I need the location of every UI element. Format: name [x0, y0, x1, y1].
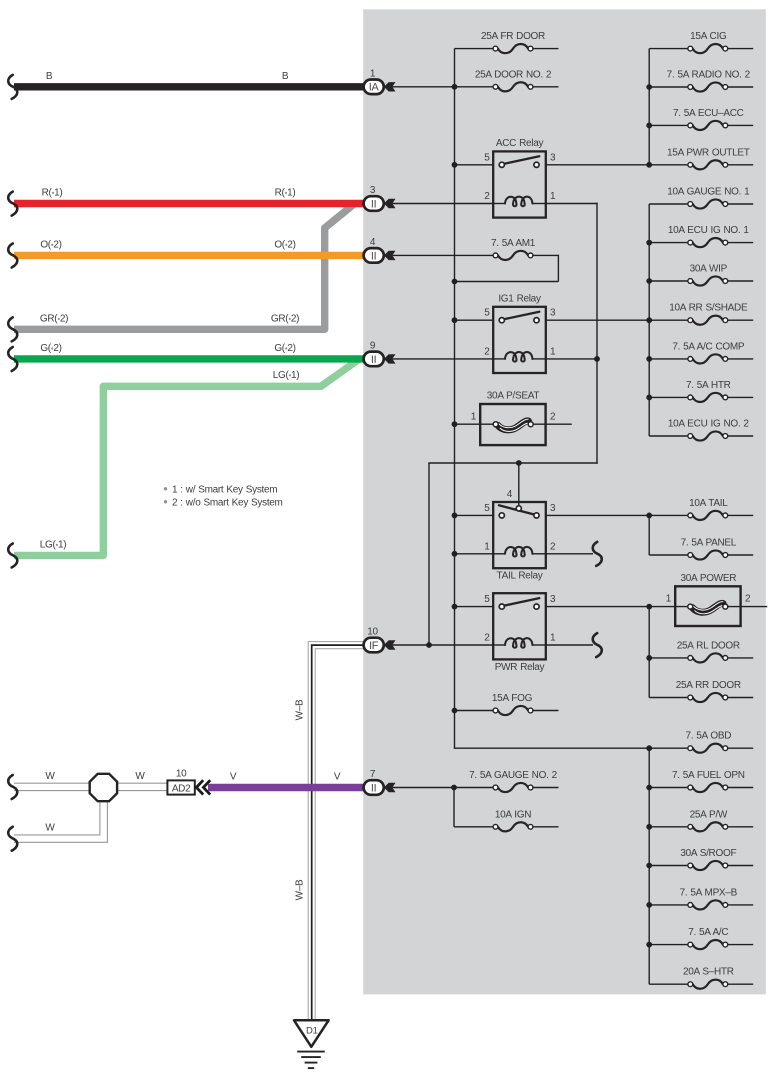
- ACC contact pin5: [499, 162, 504, 167]
- svg-text:10A RR S/SHADE: 10A RR S/SHADE: [669, 303, 748, 314]
- break squiggle W lower: [8, 827, 17, 851]
- wire W octagon down + lower W (double line): [14, 801, 100, 835]
- junction bankA RADIO: [646, 84, 652, 90]
- ground hatch bars: [297, 1051, 325, 1053]
- svg-text:2: 2: [484, 346, 490, 357]
- PWR switch blade: [504, 598, 540, 606]
- PWR contact pin3: [534, 604, 539, 609]
- PWR coil: [493, 644, 505, 646]
- fuse 7. 5A AM1: [498, 251, 528, 260]
- relay box PWR Relay: [493, 593, 546, 659]
- wire W-B outline top: [308, 642, 364, 1020]
- wire row 20A S-HTR: [649, 983, 688, 985]
- junction bankE OBD: [646, 745, 652, 751]
- junction bankC TAIL: [646, 513, 652, 519]
- wire row 25A P/W: [649, 826, 688, 828]
- wire rail to PWR pin5: [455, 606, 494, 608]
- svg-text:R(•1): R(•1): [42, 188, 63, 199]
- svg-text:10A IGN: 10A IGN: [495, 809, 531, 820]
- break squiggle LG wire: [8, 544, 17, 568]
- junction bankE S/ROOF: [646, 863, 652, 869]
- relay box ACC Relay: [493, 151, 546, 217]
- junction bankD POWER: [646, 604, 652, 610]
- svg-text:7. 5A OBD: 7. 5A OBD: [685, 731, 731, 742]
- svg-text:10: 10: [367, 627, 378, 638]
- fuse 25A P/W: [693, 822, 723, 831]
- svg-text:30A S/ROOF: 30A S/ROOF: [680, 848, 736, 859]
- wire row 30A S/ROOF: [649, 865, 688, 867]
- fuse 10A ECU IG NO.2: [693, 431, 723, 440]
- wire row 25A RR DOOR: [649, 697, 688, 699]
- svg-text:7. 5A PANEL: 7. 5A PANEL: [681, 538, 737, 549]
- svg-text:25A RR DOOR: 25A RR DOOR: [676, 680, 741, 691]
- right bank A vertical (CIG..PWR OUTLET): [648, 49, 650, 165]
- svg-text:B: B: [46, 71, 53, 82]
- wire IG1 pin1 to control column: [546, 358, 598, 360]
- connector 1 IA arrowhead: [384, 82, 396, 91]
- svg-text:1: 1: [550, 191, 556, 202]
- svg-text:1: 1: [666, 594, 672, 605]
- ACC switch blade: [504, 156, 540, 164]
- svg-text:B: B: [282, 71, 289, 82]
- svg-text:30A POWER: 30A POWER: [680, 573, 736, 584]
- svg-text:7. 5A A/C: 7. 5A A/C: [688, 927, 728, 938]
- svg-text:5: 5: [484, 503, 490, 514]
- svg-text:1: 1: [550, 633, 556, 644]
- svg-text:25A DOOR NO. 2: 25A DOOR NO. 2: [475, 69, 552, 80]
- svg-text:O(•2): O(•2): [274, 239, 295, 250]
- svg-text:II: II: [371, 354, 376, 366]
- wire connector3 to ACC relay pin2: [393, 203, 494, 205]
- TAIL pin4 contact: [516, 506, 521, 511]
- fuse 10A IGN: [498, 822, 528, 831]
- wire row 7.5A MPX-B: [649, 904, 688, 906]
- svg-text:IG1 Relay: IG1 Relay: [498, 293, 541, 304]
- wire rail to ACC relay pin5: [455, 164, 494, 166]
- wire control column to IF rail (horizontal y=463): [428, 462, 597, 464]
- POWER link element: [693, 603, 724, 612]
- svg-text:AD2: AD2: [172, 783, 191, 794]
- svg-text:10A TAIL: 10A TAIL: [689, 498, 728, 509]
- wire V purple: [208, 784, 364, 791]
- IG1 switch blade: [504, 312, 540, 320]
- junction block shaded panel: [363, 9, 766, 994]
- IG1 contact pin3: [534, 318, 539, 323]
- svg-text:7. 5A AM1: 7. 5A AM1: [491, 238, 536, 249]
- connector 9 II pill: [364, 352, 384, 367]
- svg-text:W–B: W–B: [295, 699, 306, 720]
- svg-text:1: 1: [471, 411, 477, 422]
- svg-text:25A RL DOOR: 25A RL DOOR: [677, 640, 740, 651]
- wire connector9 to IG1 pin2: [393, 358, 494, 360]
- svg-text:5: 5: [484, 308, 490, 319]
- junction rail/IG1 pin5: [452, 317, 458, 323]
- junction bankB HTR: [646, 395, 652, 401]
- wire TAIL pin2 stub: [546, 553, 593, 555]
- svg-text:25A P/W: 25A P/W: [690, 809, 728, 820]
- wire connector7 to GAUGE NO.2 row: [393, 787, 494, 789]
- wire G(*2) green: [14, 355, 364, 362]
- junction rail/DOOR NO.2: [452, 84, 458, 90]
- connector 4 II pill: [364, 248, 384, 263]
- wire row 7.5A ECU-ACC: [649, 124, 688, 126]
- break squiggle B wire: [8, 75, 17, 99]
- fuse 10A RR S/SHADE: [693, 316, 723, 325]
- break squiggle W upper: [8, 775, 17, 799]
- svg-text:30A WIP: 30A WIP: [690, 264, 728, 275]
- svg-text:W: W: [135, 771, 145, 782]
- wire row 25A RL DOOR: [649, 657, 688, 659]
- fuse 7.5A RADIO NO.2: [693, 82, 723, 91]
- break squiggle R wire: [8, 192, 17, 216]
- wire B black: [14, 83, 364, 90]
- svg-text:25A FR DOOR: 25A FR DOOR: [481, 31, 545, 42]
- wire row 10A RR S/SHADE: [649, 319, 688, 321]
- svg-text:LG(•1): LG(•1): [273, 370, 300, 381]
- wire W-B outline bottom: [315, 649, 364, 1020]
- fuse 15A FOG: [498, 706, 528, 715]
- junction bankD RL DOOR: [646, 655, 652, 661]
- wire row 7.5A FUEL OPN: [649, 787, 688, 789]
- wire row 10A ECU IG NO.1: [649, 242, 688, 244]
- wire branch down to 10A IGN: [453, 788, 455, 827]
- svg-text:30A P/SEAT: 30A P/SEAT: [487, 391, 540, 402]
- connector 7 II pill: [364, 780, 384, 795]
- svg-text:1: 1: [484, 541, 490, 552]
- junction bankB RR S/SHADE: [646, 317, 652, 323]
- connector box AD2: [167, 780, 194, 794]
- svg-text:O(•2): O(•2): [40, 239, 61, 250]
- junction bankB WIP: [646, 278, 652, 284]
- wire row 7.5A RADIO NO.2: [649, 86, 688, 88]
- wire ACC pin1 to relay control column: [546, 203, 598, 205]
- wire row 7.5A A/C COMP: [649, 358, 688, 360]
- IG1 contact pin5: [499, 318, 504, 323]
- ACC contact pin3: [534, 162, 539, 167]
- wire ACC pin3 to 15A PWR OUTLET: [546, 164, 649, 166]
- junction rail/ACC pin5: [452, 162, 458, 168]
- svg-text:II: II: [371, 198, 376, 210]
- wire row 15A PWR OUTLET: [649, 164, 688, 166]
- fuse 7.5A PANEL: [693, 550, 723, 559]
- break squiggle G wire: [8, 347, 17, 371]
- wire row 30A WIP: [649, 280, 688, 282]
- svg-text:5: 5: [484, 594, 490, 605]
- fuse 30A WIP: [693, 276, 723, 285]
- wire rail to P/SEAT pin1: [455, 423, 496, 425]
- wire row 7.5A A/C: [649, 944, 688, 946]
- TAIL contact pin5: [499, 513, 504, 518]
- wire LG(*1) light green: [14, 360, 358, 555]
- svg-text:5: 5: [484, 152, 490, 163]
- connector 10 IF arrowhead: [384, 640, 396, 649]
- svg-text:2 : w/o Smart Key System: 2 : w/o Smart Key System: [172, 497, 283, 508]
- svg-text:7. 5A HTR: 7. 5A HTR: [686, 380, 731, 391]
- chevrons (in-line connector): [196, 780, 203, 794]
- TAIL switch blade: [499, 505, 534, 514]
- wire GR(*2) gray: [14, 203, 356, 330]
- svg-text:R(•1): R(•1): [275, 188, 296, 199]
- break squiggle GR wire: [8, 317, 17, 341]
- junction bankB A/C COMP: [646, 356, 652, 362]
- wire connector10 to PWR pin2: [393, 644, 494, 646]
- svg-text:3: 3: [550, 503, 556, 514]
- svg-text:7: 7: [370, 769, 376, 780]
- wire W-B black stripe: [312, 645, 364, 1020]
- svg-text:II: II: [371, 782, 376, 794]
- wire rail to TAIL pin1: [455, 553, 494, 555]
- connector 3 II pill: [364, 196, 384, 211]
- fuse 7. 5A GAUGE NO. 2: [498, 783, 528, 792]
- svg-text:10: 10: [176, 769, 187, 780]
- connector 3 II arrowhead: [384, 199, 396, 208]
- svg-text:3: 3: [550, 152, 556, 163]
- svg-text:D1: D1: [306, 1026, 318, 1037]
- svg-text:10A ECU IG NO. 1: 10A ECU IG NO. 1: [668, 225, 750, 236]
- fuse 10A TAIL: [693, 511, 723, 520]
- connector 4 II arrowhead: [384, 251, 396, 260]
- svg-text:II: II: [371, 250, 376, 262]
- svg-text:G(•2): G(•2): [274, 343, 295, 354]
- junction bankE A/C: [646, 942, 652, 948]
- svg-text:W: W: [45, 771, 55, 782]
- wire row 10A ECU IG NO.2: [649, 435, 688, 437]
- TAIL coil: [493, 553, 505, 555]
- wire row 10A TAIL: [649, 514, 688, 516]
- junction rail/AM1 output: [452, 279, 458, 285]
- wire W upper (double line): [14, 782, 90, 784]
- right bank C vertical (TAIL/PANEL): [648, 515, 650, 555]
- fuse 15A PWR OUTLET: [693, 160, 723, 169]
- junction rail/FOG: [452, 708, 458, 714]
- svg-text:2: 2: [550, 411, 556, 422]
- svg-text:10A GAUGE NO. 1: 10A GAUGE NO. 1: [667, 187, 750, 198]
- fuse 30A S/ROOF: [693, 861, 723, 870]
- wire row 25A FR DOOR: [455, 48, 494, 50]
- junction bankA PWR OUTLET: [646, 162, 652, 168]
- footnote 1 w/ Smart Key System: [164, 487, 167, 490]
- wire TAIL pin3 to 10A TAIL: [546, 514, 649, 516]
- fuse 7.5A OBD: [693, 744, 723, 753]
- junction GAUGE NO.2/IGN branch: [451, 785, 457, 791]
- fuse 25A FR DOOR: [498, 44, 528, 53]
- connector 1 IA pill: [364, 80, 384, 95]
- svg-text:3: 3: [550, 594, 556, 605]
- fuse 20A S-HTR: [693, 980, 723, 989]
- junction bankE FUEL OPN: [646, 785, 652, 791]
- svg-text:7. 5A FUEL OPN: 7. 5A FUEL OPN: [672, 770, 745, 781]
- TAIL contact pin3: [534, 513, 539, 518]
- wire W octagon to AD2: [117, 782, 167, 784]
- relay control column x=597: [596, 203, 598, 464]
- junction bankB: [646, 240, 652, 246]
- svg-text:1: 1: [550, 346, 556, 357]
- footnote 2 w/o Smart Key System: [164, 500, 167, 503]
- connector 9 II arrowhead: [384, 354, 396, 363]
- junction bankE MPX-B: [646, 902, 652, 908]
- svg-text:7. 5A MPX–B: 7. 5A MPX–B: [680, 887, 738, 898]
- fuse 7.5A ECU-ACC: [693, 121, 723, 130]
- svg-text:15A CIG: 15A CIG: [690, 31, 727, 42]
- svg-text:4: 4: [507, 489, 513, 500]
- wire row 25A DOOR NO. 2 (from connector 1): [393, 86, 494, 88]
- wire PWR pin1 stub: [546, 644, 593, 646]
- wire rail to TAIL pin5: [455, 514, 494, 516]
- relay box TAIL Relay: [493, 502, 546, 568]
- fuse 7.5A A/C COMP: [693, 354, 723, 363]
- svg-text:15A FOG: 15A FOG: [492, 693, 533, 704]
- wire IF rail vertical x=429: [428, 463, 430, 646]
- svg-text:IA: IA: [369, 82, 380, 94]
- svg-text:4: 4: [370, 237, 376, 248]
- svg-text:V: V: [230, 772, 237, 783]
- junction bankA ECU-ACC: [646, 123, 652, 129]
- svg-text:2: 2: [745, 594, 751, 605]
- fuse 10A GAUGE NO.1: [693, 199, 723, 208]
- break squiggle PWR pin1: [593, 633, 602, 657]
- svg-text:20A S–HTR: 20A S–HTR: [683, 967, 734, 978]
- wire O(*2) orange: [14, 252, 364, 259]
- junction bankE P/W: [646, 824, 652, 830]
- right bank D vertical (POWER..RR DOOR): [648, 607, 650, 698]
- wire row 15A FOG: [455, 710, 494, 712]
- relay box IG1 Relay: [493, 307, 546, 373]
- P/SEAT link element: [498, 421, 529, 430]
- junction IF line: [426, 642, 432, 648]
- fuse 25A DOOR NO. 2: [498, 82, 528, 91]
- svg-text:3: 3: [550, 308, 556, 319]
- svg-text:1: 1: [370, 69, 376, 80]
- svg-text:IF: IF: [369, 640, 379, 652]
- svg-text:15A PWR OUTLET: 15A PWR OUTLET: [667, 147, 750, 158]
- junction control column/IG1 pin1: [594, 356, 600, 362]
- svg-text:LG(•1): LG(•1): [40, 539, 67, 550]
- connector 7 II arrowhead: [384, 783, 396, 792]
- svg-text:10A ECU IG NO. 2: 10A ECU IG NO. 2: [668, 419, 750, 430]
- wire row 7.5A HTR: [649, 396, 688, 398]
- svg-text:TAIL Relay: TAIL Relay: [497, 570, 543, 581]
- ACC coil: [493, 203, 505, 205]
- splice octagon J4: [90, 774, 117, 801]
- ground D1 triangle: [294, 1020, 329, 1047]
- fuse 25A RR DOOR: [693, 693, 723, 702]
- svg-text:7. 5A RADIO NO. 2: 7. 5A RADIO NO. 2: [667, 70, 751, 81]
- wire row 7.5A AM1 (from connector 4): [393, 254, 494, 256]
- svg-text:2: 2: [550, 541, 556, 552]
- fuse 15A CIG: [693, 44, 723, 53]
- wire PWR pin3 to 30A POWER: [546, 606, 688, 608]
- wire IG1 pin3 to 10A RR S/SHADE: [546, 319, 649, 321]
- wire AM1 output wrap to rail: [557, 255, 559, 282]
- wire row 7.5A PANEL: [649, 554, 688, 556]
- svg-text:GR(•2): GR(•2): [271, 313, 299, 324]
- fuse 25A RL DOOR: [693, 653, 723, 662]
- wire POWER pin2 out to edge: [727, 606, 767, 608]
- fuse 7.5A HTR: [693, 393, 723, 402]
- connector 10 IF pill: [364, 638, 384, 653]
- PWR contact pin5: [499, 604, 504, 609]
- IG1 coil: [493, 358, 505, 360]
- svg-text:2: 2: [484, 633, 490, 644]
- fuse 7.5A FUEL OPN: [693, 783, 723, 792]
- fuse 7.5A A/C: [693, 940, 723, 949]
- svg-text:G(•2): G(•2): [40, 343, 61, 354]
- svg-text:W–B: W–B: [295, 879, 306, 900]
- svg-text:W: W: [45, 823, 55, 834]
- wire P/SEAT pin2 out: [530, 423, 572, 425]
- wire row 7.5A OBD: [649, 747, 688, 749]
- wire row 15A CIG: [649, 48, 688, 50]
- wire row 10A GAUGE NO.1: [649, 203, 688, 205]
- wire rail to IG1 pin5: [455, 319, 494, 321]
- svg-text:7. 5A A/C COMP: 7. 5A A/C COMP: [672, 341, 745, 352]
- svg-text:1 : w/ Smart Key System: 1 : w/ Smart Key System: [172, 484, 277, 495]
- main rail from AM1/battery (vertical, left fuse column): [454, 49, 456, 749]
- TAIL pin4 lead: [518, 463, 520, 506]
- svg-text:7. 5A ECU–ACC: 7. 5A ECU–ACC: [673, 108, 744, 119]
- svg-text:3: 3: [370, 185, 376, 196]
- fuse 10A ECU IG NO.1: [693, 238, 723, 247]
- wire R(*1) red: [14, 200, 364, 207]
- svg-text:ACC Relay: ACC Relay: [496, 138, 544, 149]
- box 30A P/SEAT: [480, 404, 545, 445]
- svg-text:PWR Relay: PWR Relay: [495, 662, 545, 673]
- break squiggle O wire: [8, 244, 17, 268]
- fuse 7.5A MPX-B: [693, 900, 723, 909]
- svg-text:GR(•2): GR(•2): [40, 313, 68, 324]
- svg-text:2: 2: [484, 191, 490, 202]
- box 30A POWER: [675, 586, 740, 626]
- svg-text:7. 5A GAUGE NO. 2: 7. 5A GAUGE NO. 2: [469, 770, 557, 781]
- OBD feed line (rail bottom corner to right bank): [454, 747, 649, 749]
- right bank E vertical (OBD..S-HTR): [648, 748, 650, 984]
- right bank B vertical (GAUGE NO.1..ECU IG NO.2): [648, 204, 650, 436]
- svg-text:V: V: [334, 772, 341, 783]
- junction rail/P/SEAT: [452, 421, 458, 427]
- svg-text:9: 9: [370, 341, 376, 352]
- break squiggle TAIL pin2: [593, 542, 602, 566]
- junction TAIL pin4 tap: [516, 460, 522, 466]
